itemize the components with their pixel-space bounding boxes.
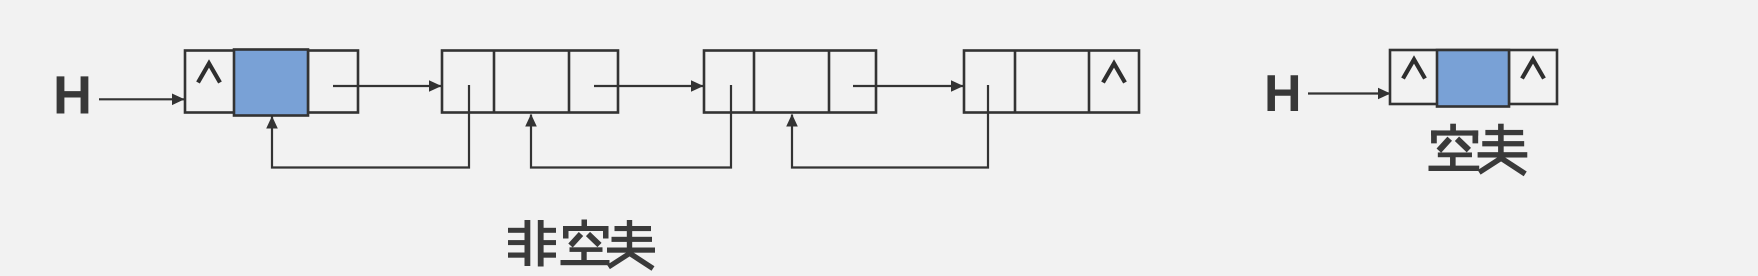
node N5 next null caret	[1522, 60, 1544, 79]
svg-text:H: H	[53, 66, 92, 126]
svg-text:H: H	[1264, 65, 1302, 123]
node N4 cell dividers	[1014, 51, 1017, 113]
node N1 box	[185, 51, 358, 113]
node N2 cell dividers	[493, 51, 496, 113]
wire next N3 to N4	[853, 85, 963, 87]
node N1 prior null caret	[198, 64, 220, 83]
node N2 box	[442, 51, 618, 113]
wire prior N4 to N3	[792, 85, 988, 168]
node N5 cell dividers	[1436, 50, 1439, 104]
node N1 data cell (blue)	[234, 50, 308, 116]
node N3 box	[704, 51, 876, 113]
node N3 cell dividers	[753, 51, 756, 113]
node N5 prior null caret	[1403, 60, 1425, 79]
caption: 非空表 (non-empty list)	[508, 220, 655, 269]
node N4 next null caret	[1103, 64, 1125, 83]
node N5 (empty list) box	[1390, 50, 1557, 104]
wire H to node N1	[99, 98, 184, 100]
node N1 cell dividers	[234, 51, 237, 113]
wire prior N2 to N1	[272, 85, 469, 168]
wire H to empty node	[1308, 92, 1390, 94]
wire next N2 to N3	[594, 85, 703, 87]
node N5 data cell (blue)	[1437, 50, 1509, 107]
caption: 空表 (empty list)	[1429, 124, 1528, 174]
wire next N1 to N2	[333, 85, 441, 87]
node N4 box	[964, 51, 1139, 113]
wire prior N3 to N2	[531, 85, 731, 168]
